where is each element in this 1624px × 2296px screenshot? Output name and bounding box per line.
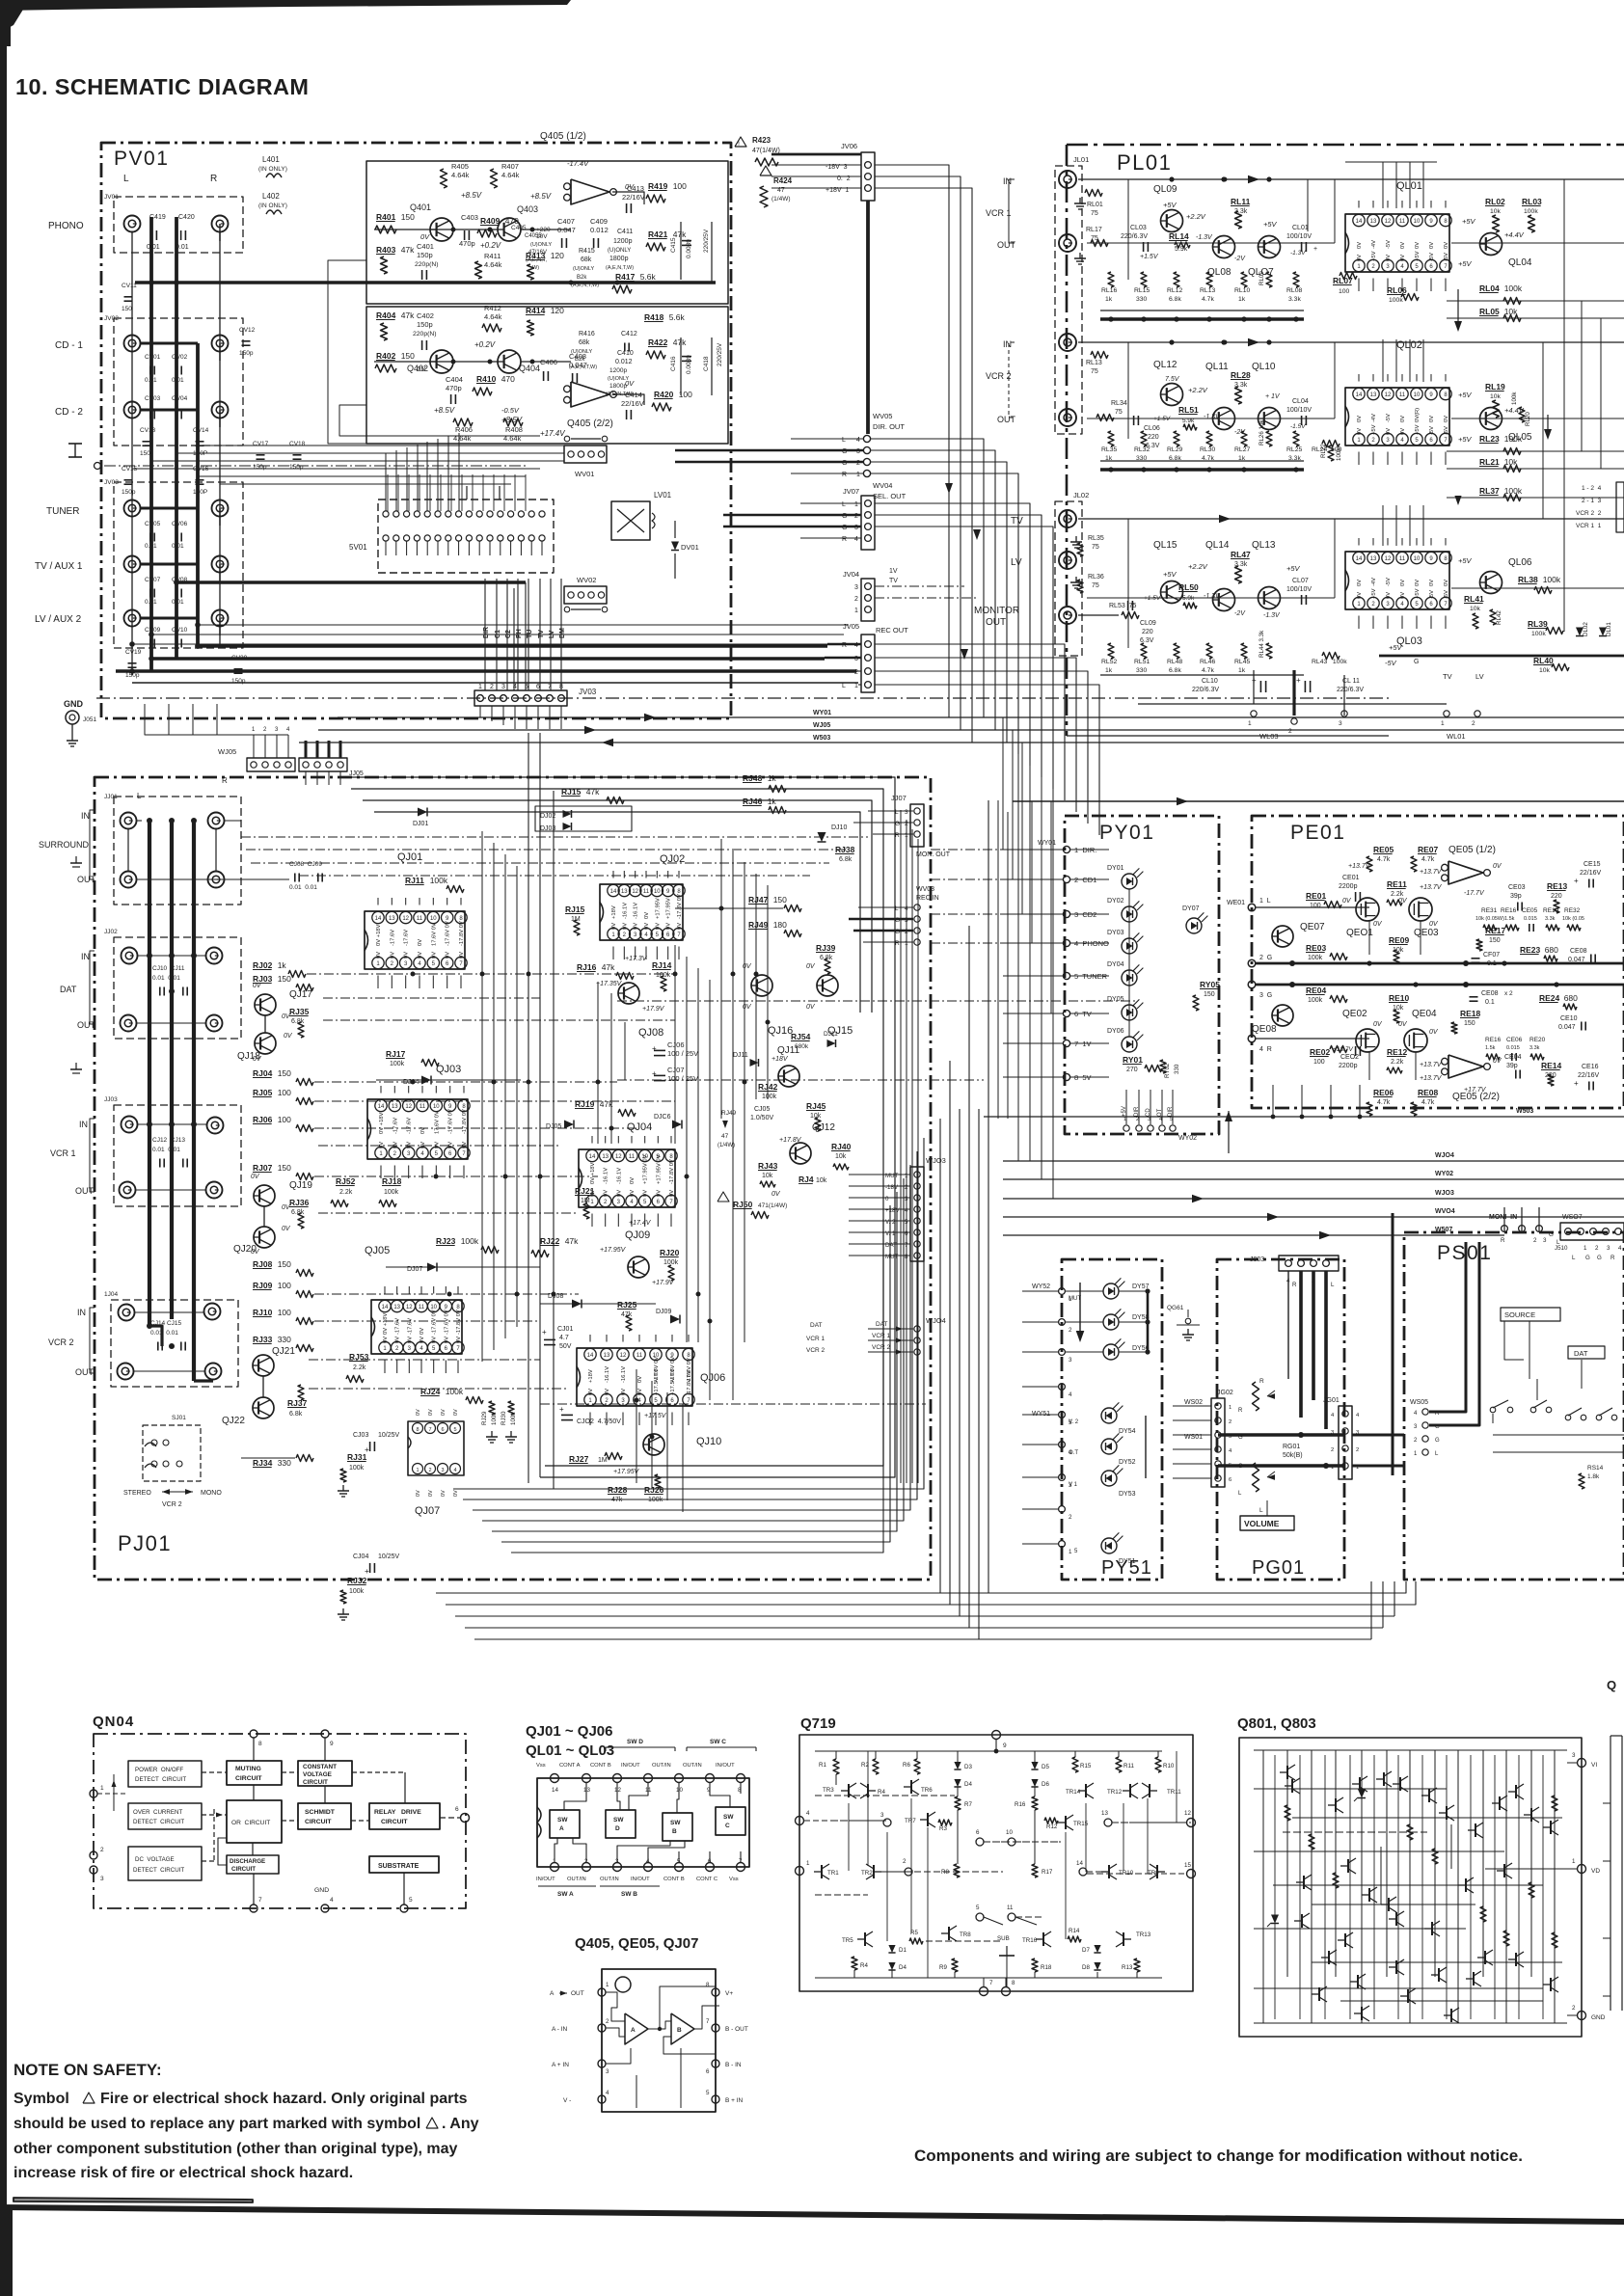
svg-text:3: 3 — [501, 684, 505, 690]
connector JJ04 dashed box — [111, 1300, 238, 1387]
svg-text:7: 7 — [548, 684, 552, 690]
svg-text:G: G — [1585, 1255, 1590, 1261]
svg-text:0V: 0V — [1357, 428, 1363, 435]
svg-text:+5V: +5V — [1458, 259, 1473, 268]
index mark — [615, 1977, 631, 1992]
svg-text:10k: 10k — [1470, 606, 1481, 612]
svg-text:47k: 47k — [565, 1236, 579, 1246]
bracket VCR1 — [90, 1119, 95, 1192]
svg-text:0V: 0V — [417, 365, 426, 373]
pin Q801 2 GND — [1578, 2012, 1586, 2020]
svg-text:TV: TV — [889, 578, 898, 584]
svg-text:0V: 0V — [434, 1142, 440, 1148]
svg-text:5.6k: 5.6k — [640, 272, 657, 282]
pin B+IN 5 — [712, 2095, 719, 2103]
dots PV01 buses — [195, 622, 201, 628]
svg-text:0V: 0V — [459, 952, 465, 959]
svg-text:D: D — [615, 1825, 620, 1832]
svg-text:DL02: DL02 — [1583, 622, 1589, 636]
svg-text:Components and wiring are subj: Components and wiring are subject to cha… — [914, 2147, 1523, 2165]
ground LV jack — [1075, 577, 1077, 582]
svg-text:1J04: 1J04 — [104, 1291, 118, 1298]
svg-text:J051: J051 — [83, 716, 96, 723]
svg-text:22/16V: 22/16V — [1580, 870, 1602, 877]
svg-text:B - OUT: B - OUT — [725, 2026, 748, 2033]
svg-text:11: 11 — [643, 889, 650, 895]
wire bottom run risers — [1394, 1581, 1395, 1616]
svg-text:+0.2V: +0.2V — [480, 241, 501, 250]
svg-text:+2.2V: +2.2V — [1188, 386, 1208, 394]
svg-text:10: 10 — [1414, 219, 1421, 225]
svg-text:RG01: RG01 — [1283, 1444, 1300, 1450]
svg-text:QE03: QE03 — [1414, 928, 1439, 938]
svg-text:+17.3V: +17.3V — [625, 956, 648, 962]
svg-text:3: 3 — [1543, 1237, 1547, 1244]
svg-text:11: 11 — [420, 1104, 426, 1110]
svg-text:+0.2V: +0.2V — [474, 340, 496, 349]
svg-text:REC OUT: REC OUT — [876, 626, 908, 635]
wire RL23 lines — [1447, 450, 1624, 452]
IC switch body — [537, 1778, 749, 1867]
svg-text:50k(B): 50k(B) — [1283, 1452, 1303, 1459]
transistor QE08 — [1272, 1005, 1293, 1026]
svg-text:10k: 10k — [762, 1173, 773, 1179]
svg-text:R: R — [210, 174, 217, 184]
IC QJ05 body — [371, 1300, 462, 1354]
pot RG01 upper — [1253, 1382, 1259, 1411]
svg-text:DY06: DY06 — [1107, 1028, 1124, 1035]
svg-text:RE16: RE16 — [1485, 1037, 1502, 1043]
svg-text:+17.7V: +17.7V — [1464, 1087, 1487, 1094]
svg-text:R: R — [222, 776, 228, 785]
terminal PE01 1 L — [1248, 904, 1256, 911]
svg-text:RL12: RL12 — [1167, 287, 1182, 294]
svg-text:R9: R9 — [939, 1964, 947, 1971]
svg-text:IN: IN — [79, 1120, 88, 1129]
wire JJ07 feeds — [868, 810, 913, 812]
arrow down x984 — [945, 483, 953, 494]
svg-text:100: 100 — [278, 1115, 291, 1124]
svg-text:-17.6V: -17.6V — [395, 1318, 401, 1335]
svg-text:100k: 100k — [1389, 297, 1403, 304]
svg-text:RJ15: RJ15 — [565, 905, 585, 914]
switch PS01 b — [1530, 1407, 1536, 1413]
wire WJ05 feeds from left — [145, 704, 254, 735]
svg-text:+17.4V: +17.4V — [629, 1220, 652, 1227]
svg-text:SW: SW — [613, 1817, 624, 1823]
svg-text:JG02: JG02 — [1217, 1390, 1233, 1396]
svg-text:QJ03: QJ03 — [436, 1064, 461, 1075]
svg-text:0V: 0V — [428, 1490, 434, 1497]
svg-text:IN/OUT: IN/OUT — [621, 1763, 640, 1769]
svg-text:B2k: B2k — [577, 275, 587, 281]
wire bus WS03 — [299, 742, 1624, 743]
svg-text:180: 180 — [773, 920, 787, 930]
svg-text:9: 9 — [1003, 1742, 1007, 1749]
resistor R4b — [852, 1957, 857, 1970]
svg-text:QE08: QE08 — [1252, 1024, 1277, 1035]
svg-text:DY03: DY03 — [1107, 930, 1124, 936]
page scan top edge bar — [0, 0, 571, 11]
svg-text:4.7k: 4.7k — [1421, 1099, 1435, 1106]
svg-text:DAT: DAT — [1574, 1349, 1588, 1358]
pin QN04 7 — [250, 1904, 257, 1912]
pin Q719 14 — [1079, 1868, 1087, 1876]
wire WJ05 stems up — [253, 735, 255, 758]
svg-text:QL02: QL02 — [1396, 339, 1422, 351]
svg-text:1: 1 — [1229, 1405, 1232, 1411]
svg-text:(1/4W): (1/4W) — [771, 196, 791, 203]
svg-text:10/25V: 10/25V — [378, 1432, 400, 1439]
svg-text:0.0039: 0.0039 — [686, 239, 692, 258]
svg-text:JV03: JV03 — [104, 479, 119, 486]
svg-text:11: 11 — [629, 1154, 636, 1160]
svg-text:CONT B: CONT B — [663, 1877, 685, 1882]
svg-text:-5V: -5V — [1444, 253, 1449, 261]
svg-text:+2.2V: +2.2V — [1188, 562, 1208, 571]
svg-text:VCR 2: VCR 2 — [162, 1501, 182, 1508]
svg-text:RE04: RE04 — [1306, 986, 1327, 995]
svg-text:0V: 0V — [453, 1490, 459, 1497]
wire plus5 rail — [1379, 655, 1624, 658]
ground symbol left 1 — [74, 444, 76, 457]
svg-text:W): W) — [532, 265, 539, 271]
diode DJ05 — [564, 1121, 574, 1129]
connector JV02 dashed box — [114, 318, 243, 446]
svg-text:VCR 1: VCR 1 — [986, 208, 1012, 218]
block QN04 border — [94, 1734, 466, 1908]
diode D4 — [954, 1779, 961, 1787]
svg-text:-4V: -4V — [1371, 578, 1377, 586]
terminal 8 5V — [1063, 1073, 1069, 1080]
wire pinout internal — [564, 1783, 586, 1810]
transistor QJ08 — [618, 983, 639, 1004]
svg-text:QE02: QE02 — [1342, 1009, 1367, 1019]
svg-text:6: 6 — [1229, 1477, 1232, 1483]
svg-text:R405: R405 — [451, 162, 469, 171]
pin Q719 2 — [905, 1868, 912, 1876]
svg-text:7.5V: 7.5V — [1165, 376, 1180, 383]
svg-text:+2.2V: +2.2V — [1186, 212, 1206, 221]
svg-text:-5V: -5V — [1429, 590, 1435, 599]
svg-text:CJ10 CJ11: CJ10 CJ11 — [152, 965, 185, 972]
svg-text:0V: 0V — [282, 1226, 291, 1232]
svg-text:+5V: +5V — [1458, 391, 1473, 399]
connector JV01 dashed box — [114, 197, 243, 253]
svg-text:+17.9V: +17.9V — [642, 1006, 665, 1013]
svg-text:1: 1 — [856, 472, 860, 478]
svg-text:2: 2 — [905, 821, 908, 827]
svg-text:DY05: DY05 — [1107, 996, 1124, 1003]
svg-text:0V: 0V — [622, 923, 628, 930]
jack MONITOR OUT — [1059, 607, 1076, 624]
svg-text:10k: 10k — [1490, 208, 1502, 215]
wire bus WY02 right — [1003, 1178, 1624, 1180]
svg-text:QG61: QG61 — [1167, 1305, 1184, 1311]
svg-text:RL28: RL28 — [1231, 370, 1251, 380]
svg-text:CE10: CE10 — [1560, 1015, 1578, 1022]
svg-text:L: L — [1259, 1507, 1263, 1514]
wire WV05 right bends — [871, 439, 984, 717]
svg-text:4: 4 — [856, 437, 860, 444]
svg-text:3.3k: 3.3k — [1529, 1045, 1540, 1051]
wire Q801 rails — [1254, 1749, 1567, 1751]
zener Q801 a — [1271, 1915, 1279, 1924]
svg-text:RY02: RY02 — [1164, 1063, 1171, 1078]
pin QN04 1 — [90, 1790, 97, 1797]
svg-text:JV07: JV07 — [843, 487, 859, 496]
svg-text:+5V: +5V — [1389, 643, 1403, 652]
svg-text:RJ45: RJ45 — [806, 1101, 826, 1111]
svg-text:CJ01: CJ01 — [557, 1326, 573, 1333]
svg-text:3.3k: 3.3k — [1545, 916, 1556, 922]
svg-text:SW C: SW C — [710, 1739, 726, 1745]
svg-text:+5V: +5V — [1263, 220, 1278, 229]
wire WV05 left feeds — [791, 438, 863, 440]
svg-text:47k: 47k — [586, 787, 600, 797]
svg-text:RL44 3.3k: RL44 3.3k — [1259, 630, 1265, 658]
svg-text:6.8k: 6.8k — [839, 856, 853, 863]
svg-text:R15: R15 — [1080, 1763, 1092, 1769]
svg-text:0V: 0V — [625, 379, 635, 388]
svg-text:MUT: MUT — [885, 1254, 899, 1260]
connector JV03 dashed box — [114, 482, 243, 648]
wire loop 3 — [363, 800, 872, 1013]
svg-text:-17.6V 0V: -17.6V 0V — [448, 1109, 454, 1134]
svg-text:VI: VI — [1591, 1762, 1597, 1769]
svg-text:+5V: +5V — [1415, 588, 1421, 599]
pin Q719 5 — [976, 1913, 984, 1921]
svg-text:2: 2 — [100, 1847, 104, 1853]
svg-text:-5V: -5V — [1386, 240, 1392, 249]
ground TV jack — [1075, 536, 1077, 542]
box OVER CURRENT DETECT CIRCUIT — [128, 1803, 202, 1829]
jack surround OUT L — [121, 872, 137, 888]
svg-text:150: 150 — [1464, 1020, 1475, 1027]
svg-text:4.64k: 4.64k — [501, 171, 520, 179]
bracket DAT — [90, 951, 95, 1024]
svg-text:RJ36: RJ36 — [289, 1198, 310, 1207]
svg-text:RL13: RL13 — [1086, 360, 1102, 366]
svg-text:3: 3 — [905, 809, 908, 816]
svg-text:4.7k: 4.7k — [1202, 667, 1214, 674]
diode DJ11b — [827, 1040, 836, 1047]
diode DJ09 — [670, 1315, 680, 1324]
svg-text:JG01: JG01 — [1323, 1397, 1340, 1404]
svg-text:75: 75 — [1091, 210, 1098, 217]
svg-text:RE16: RE16 — [1501, 907, 1517, 914]
svg-text:VOLUME: VOLUME — [1244, 1519, 1280, 1528]
svg-text:RE12: RE12 — [1387, 1047, 1408, 1057]
wire Q801 extra verticals — [1274, 1755, 1276, 2019]
svg-text:JV01: JV01 — [104, 194, 119, 201]
box Q719 — [799, 1735, 1193, 1991]
wire JV06 down bus — [866, 201, 870, 434]
svg-text:VCR 1: VCR 1 — [50, 1148, 76, 1158]
jack VCR1 IN R — [207, 1118, 224, 1134]
svg-text:1: 1 — [416, 1468, 419, 1473]
wire QL01 top feeds — [1382, 162, 1384, 208]
svg-text:SJ01: SJ01 — [172, 1415, 186, 1421]
svg-text:680k: 680k — [795, 1043, 809, 1050]
svg-text:RE07: RE07 — [1418, 845, 1439, 854]
wire Q719 verticals extra — [848, 1803, 850, 1871]
svg-text:-17.8V 0V: -17.8V 0V — [669, 1159, 675, 1184]
svg-text:2.2k: 2.2k — [1391, 1059, 1404, 1066]
svg-text:RL35: RL35 — [1101, 446, 1117, 453]
svg-text:11: 11 — [419, 1305, 425, 1310]
svg-text:RJ05: RJ05 — [253, 1088, 273, 1097]
svg-text:39p: 39p — [1510, 893, 1522, 900]
connector WV02 — [564, 586, 607, 604]
svg-text:12: 12 — [632, 889, 638, 895]
connector JL01 dashed box — [1055, 166, 1082, 434]
svg-text:+5V: +5V — [1371, 251, 1377, 261]
svg-text:RJ09: RJ09 — [253, 1281, 273, 1290]
svg-text:39p: 39p — [1506, 1063, 1518, 1069]
svg-text:Q: Q — [1607, 1678, 1616, 1692]
wire PY01 left drops — [1002, 717, 1004, 850]
svg-text:CD: CD — [1146, 1108, 1151, 1117]
svg-text:WE01: WE01 — [1227, 900, 1245, 906]
svg-text:6: 6 — [706, 2068, 710, 2075]
wire PL01 row2 signal — [1078, 341, 1624, 343]
warning triangle R424 — [760, 166, 771, 176]
svg-text:RE05: RE05 — [1373, 845, 1394, 854]
svg-text:WV04: WV04 — [873, 481, 892, 490]
svg-text:R: R — [1259, 1378, 1264, 1385]
svg-text:QL01: QL01 — [1396, 180, 1422, 192]
opamp Q405a — [571, 179, 609, 204]
svg-text:QJ08: QJ08 — [638, 1027, 663, 1039]
bracket SW C top — [687, 1746, 756, 1748]
svg-text:Q405 (2/2): Q405 (2/2) — [567, 419, 613, 429]
svg-text:RL06: RL06 — [1387, 285, 1407, 295]
connector WV01 — [564, 446, 607, 463]
svg-text:220: 220 — [1142, 629, 1153, 635]
svg-text:RL35: RL35 — [1088, 535, 1104, 542]
svg-text:0V: 0V — [1357, 580, 1363, 586]
svg-text:1k: 1k — [1238, 667, 1246, 674]
svg-text:CV18: CV18 — [289, 441, 306, 447]
svg-text:2: 2 — [1069, 1514, 1072, 1521]
svg-text:0V: 0V — [420, 1328, 425, 1335]
svg-text:0V: 0V — [743, 963, 752, 970]
transistor QJ15 — [817, 975, 838, 996]
wire SV01 risers — [387, 474, 389, 511]
svg-text:-5V: -5V — [1429, 426, 1435, 435]
wire PL01 inner verticals — [1334, 179, 1336, 243]
svg-text:4.64k: 4.64k — [484, 260, 502, 269]
wire PL01 row1 link a — [1087, 242, 1335, 244]
svg-text:RJ08: RJ08 — [253, 1259, 273, 1269]
svg-text:100k: 100k — [461, 1236, 479, 1246]
svg-text:QJ06: QJ06 — [700, 1372, 725, 1384]
svg-text:SW: SW — [723, 1814, 734, 1821]
box VOLUME — [1240, 1516, 1294, 1530]
svg-text:+17.95V 0V: +17.95V 0V — [643, 1154, 649, 1184]
connector JJ03 dashed box — [114, 1105, 241, 1206]
svg-text:L: L — [123, 174, 129, 184]
jack VCR1 OUT — [1059, 234, 1076, 252]
svg-text:5.9k: 5.9k — [1175, 246, 1188, 253]
svg-text:100: 100 — [1313, 1059, 1325, 1066]
svg-text:+5V: +5V — [1458, 556, 1473, 565]
svg-text:+1.5V: +1.5V — [1140, 254, 1159, 260]
svg-text:R402: R402 — [376, 351, 396, 361]
svg-text:-17.6V: -17.6V — [407, 1318, 413, 1335]
transistor QE07 — [1272, 926, 1293, 947]
svg-text:120: 120 — [551, 251, 564, 260]
svg-text:RE09: RE09 — [1389, 935, 1410, 945]
svg-text:RL05: RL05 — [1479, 307, 1500, 316]
svg-text:R409: R409 — [480, 216, 501, 226]
svg-text:DAT: DAT — [810, 1322, 823, 1329]
svg-text:1V: 1V — [889, 568, 898, 575]
wire WV03 feeds — [858, 906, 913, 908]
svg-text:CONT A: CONT A — [559, 1763, 581, 1769]
wire Q719 mid links — [831, 1820, 882, 1822]
box MUTING CIRCUIT — [227, 1761, 282, 1785]
jack VCR2 OUT L — [118, 1364, 134, 1380]
wire amp feed diagonals — [328, 260, 540, 444]
svg-text:RL50: RL50 — [1178, 582, 1199, 592]
svg-text:3: 3 — [1339, 720, 1342, 727]
svg-text:RL41: RL41 — [1464, 594, 1484, 604]
svg-text:RJ40: RJ40 — [831, 1142, 852, 1151]
transistor QJ18 — [255, 1033, 276, 1054]
jack VCR2 OUT — [1059, 409, 1076, 426]
svg-text:-17.6V: -17.6V — [407, 1118, 413, 1134]
LED DY56 — [1103, 1344, 1119, 1360]
svg-text:8: 8 — [258, 1741, 262, 1747]
wire Q719 top rail — [815, 1750, 1162, 1752]
svg-text:2: 2 — [1356, 1447, 1359, 1453]
svg-text:0V: 0V — [253, 983, 262, 989]
svg-text:(U)ONLY: (U)ONLY — [608, 248, 631, 254]
svg-text:+13.7V: +13.7V — [1333, 1046, 1353, 1053]
svg-text:A + IN: A + IN — [552, 2062, 569, 2068]
ground symbol DAT — [75, 1063, 77, 1069]
svg-text:RE24: RE24 — [1539, 993, 1560, 1003]
svg-text:DJ11: DJ11 — [824, 1031, 838, 1038]
svg-text:0V: 0V — [420, 1127, 426, 1134]
resistors Q801 — [1285, 1805, 1290, 1821]
svg-text:+18V: +18V — [771, 1056, 789, 1063]
svg-text:Q801, Q803: Q801, Q803 — [1237, 1715, 1316, 1732]
svg-text:150p: 150p — [239, 350, 254, 357]
switch SJ01 dashed box — [143, 1425, 201, 1481]
svg-text:+5V: +5V — [1122, 1106, 1127, 1117]
svg-text:0V: 0V — [1444, 580, 1449, 586]
svg-text:RJ11: RJ11 — [405, 876, 424, 885]
svg-text:RJ19: RJ19 — [575, 1099, 595, 1109]
svg-text:RL30: RL30 — [1200, 446, 1215, 453]
svg-text:+: + — [542, 1328, 547, 1337]
svg-text:QJ19: QJ19 — [289, 1180, 312, 1191]
pin B-IN 6 — [712, 2060, 719, 2067]
svg-text:V. 2: V. 2 — [885, 1219, 896, 1226]
svg-text:+5V: +5V — [1415, 251, 1421, 261]
svg-text:RJ50: RJ50 — [733, 1200, 753, 1209]
svg-text:0V: 0V — [806, 963, 816, 970]
svg-text:RJ10: RJ10 — [253, 1308, 273, 1317]
svg-text:-2V: -2V — [1234, 429, 1246, 436]
svg-text:WY02: WY02 — [1178, 1135, 1197, 1142]
svg-text:+5V: +5V — [1458, 435, 1473, 444]
svg-text:7: 7 — [989, 1980, 993, 1986]
svg-text:+13.7V: +13.7V — [1420, 869, 1443, 876]
